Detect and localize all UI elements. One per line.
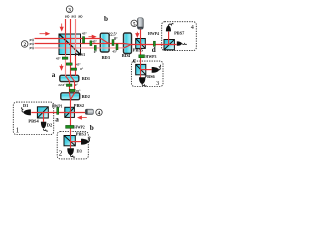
svg-text:0°: 0°: [75, 83, 79, 87]
svg-text:3: 3: [156, 80, 160, 87]
svg-text:PBS1: PBS1: [75, 52, 85, 57]
svg-text:PBS4: PBS4: [28, 118, 39, 123]
svg-text:D1: D1: [23, 103, 28, 108]
svg-text:HWP3: HWP3: [145, 55, 156, 59]
svg-text:0°: 0°: [114, 37, 118, 41]
svg-text:4: 4: [191, 24, 194, 31]
svg-text:0°: 0°: [80, 67, 84, 71]
svg-text:45°: 45°: [76, 62, 81, 66]
svg-text:b: b: [90, 124, 94, 132]
svg-text:BD4: BD4: [122, 53, 131, 58]
svg-text:PBS5: PBS5: [133, 48, 144, 53]
svg-text:D3: D3: [77, 148, 83, 153]
svg-text:HWP1: HWP1: [52, 105, 63, 109]
svg-text:45°: 45°: [112, 50, 117, 54]
svg-text:45°: 45°: [56, 56, 61, 60]
svg-text:PBS2: PBS2: [74, 103, 84, 108]
svg-text:45°: 45°: [76, 89, 81, 93]
svg-text:BD3: BD3: [102, 55, 111, 60]
svg-text:PBS6: PBS6: [145, 74, 156, 79]
svg-text:45°: 45°: [92, 40, 97, 44]
svg-text:BD1: BD1: [82, 76, 90, 81]
svg-text:22.5°: 22.5°: [109, 33, 118, 37]
svg-text:a: a: [52, 71, 56, 79]
svg-text:D2: D2: [47, 122, 52, 127]
svg-text:b: b: [104, 15, 108, 23]
svg-text:PBS3: PBS3: [76, 131, 87, 136]
svg-text:22.5°: 22.5°: [58, 83, 66, 87]
svg-text:2: 2: [59, 149, 63, 158]
svg-text:|H〉|H〉|H〉: |H〉|H〉|H〉: [65, 14, 85, 19]
svg-text:PBS7: PBS7: [174, 30, 185, 35]
svg-text:d: d: [152, 46, 156, 54]
svg-text:|H〉: |H〉: [29, 45, 36, 50]
svg-text:HWP2: HWP2: [74, 125, 85, 129]
svg-text:HWP4: HWP4: [148, 32, 159, 36]
svg-text:1: 1: [16, 126, 20, 135]
svg-text:a: a: [55, 115, 59, 123]
svg-text:BD2: BD2: [82, 94, 90, 99]
svg-text:0°: 0°: [94, 50, 98, 54]
svg-text:45°: 45°: [82, 32, 88, 36]
svg-text:c: c: [133, 57, 137, 65]
